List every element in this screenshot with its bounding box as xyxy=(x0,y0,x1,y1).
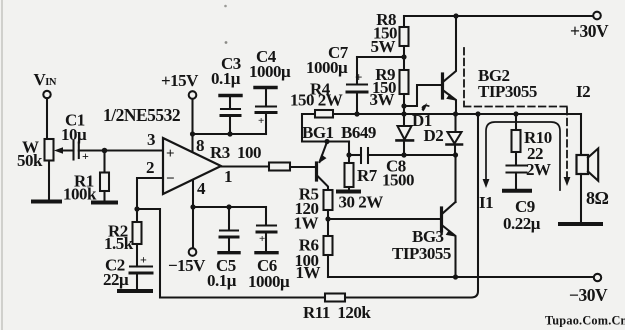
svg-text:+15V: +15V xyxy=(161,71,199,90)
svg-text:+: + xyxy=(140,253,147,267)
svg-text:8: 8 xyxy=(196,136,204,155)
ground above C4 xyxy=(255,86,276,89)
wire +15V to pin8 xyxy=(191,99,193,152)
node pin2 feedback junction xyxy=(134,206,139,211)
resistor R1 100k xyxy=(103,151,105,173)
node pin4 rail junction xyxy=(190,204,195,209)
resistor R3 100 xyxy=(221,165,269,167)
svg-text:8Ω: 8Ω xyxy=(586,188,609,208)
scan edge line left xyxy=(1,0,3,330)
svg-text:Tupao.Com.Cn: Tupao.Com.Cn xyxy=(545,314,625,328)
svg-text:1000μ: 1000μ xyxy=(248,272,290,291)
current loop I2 dashed path xyxy=(464,48,567,179)
potentiometer W 50k body xyxy=(45,139,54,161)
wire node to feedback riser xyxy=(137,208,160,210)
wire BG3 base rail xyxy=(328,218,440,220)
svg-text:1: 1 xyxy=(224,167,232,186)
svg-text:1W: 1W xyxy=(296,263,321,282)
ground under C2 xyxy=(119,289,151,293)
resistor R4 150 2W xyxy=(315,110,333,118)
svg-text:2W: 2W xyxy=(526,160,551,179)
resistor R9 150 3W xyxy=(403,57,405,70)
wire +30V rail xyxy=(404,15,594,17)
svg-text:22μ: 22μ xyxy=(103,270,129,289)
resistor R5 120 1W xyxy=(324,190,333,210)
svg-text:50k: 50k xyxy=(17,151,43,170)
svg-text:−: − xyxy=(166,171,174,187)
ground under R1 xyxy=(93,201,116,205)
current tick near BG2 base xyxy=(423,106,429,108)
node feedback rail junction xyxy=(475,111,480,116)
svg-text:3: 3 xyxy=(147,130,155,149)
svg-text:−15V: −15V xyxy=(168,256,206,275)
svg-text:4: 4 xyxy=(197,179,206,198)
transistor Q3 BG3 TIP3055 base bar xyxy=(440,208,443,231)
svg-text:5W: 5W xyxy=(371,37,396,56)
svg-text:+: + xyxy=(166,146,174,162)
svg-text:1000μ: 1000μ xyxy=(249,62,291,81)
capacitor C3 0.1u xyxy=(229,116,231,134)
wire output rail xyxy=(302,113,581,115)
node BG3 emitter junction xyxy=(453,274,458,279)
wire -15V rail to C5 C6 xyxy=(193,206,266,208)
svg-text:+30V: +30V xyxy=(570,21,609,41)
capacitor C8 1500 xyxy=(349,154,361,156)
node BG1 emitter junction xyxy=(324,139,329,144)
wire speaker to ground xyxy=(580,174,582,222)
capacitor C4 1000u xyxy=(265,113,267,134)
wire -30V rail xyxy=(328,276,594,278)
node +30V terminal xyxy=(593,12,601,20)
node R7 C8 junction xyxy=(346,152,351,157)
BG3 collector xyxy=(443,202,456,213)
svg-text:R7: R7 xyxy=(357,166,378,185)
BG1 emitter with arrow xyxy=(320,142,328,162)
current loop I1 rounded path xyxy=(486,122,560,190)
wire y155 link D1 D2 xyxy=(404,154,456,156)
wire pin2 from opamp to node xyxy=(137,178,163,209)
node -15V terminal xyxy=(189,248,197,256)
node D2 bottom junction xyxy=(453,152,458,157)
BG3 emitter with arrow xyxy=(443,226,456,277)
svg-text:+: + xyxy=(355,70,362,85)
svg-text:BG1: BG1 xyxy=(302,123,334,142)
node D2 rail junction xyxy=(453,111,458,116)
svg-text:1W: 1W xyxy=(294,214,319,233)
capacitor C2 22u plates xyxy=(130,265,152,267)
transistor Q1 BG1 B649 base bar xyxy=(315,163,318,180)
svg-text:30 2W: 30 2W xyxy=(339,193,384,212)
wire R7 branch from emitter node xyxy=(348,142,350,156)
ground under R7 xyxy=(338,190,359,194)
node C7 rail junction xyxy=(354,111,359,116)
node D1 rail junction xyxy=(401,111,406,116)
transistor Q2 BG2 TIP3055 base bar xyxy=(441,74,444,98)
resistor R2 1.5k xyxy=(136,209,138,222)
svg-text:100k: 100k xyxy=(63,185,97,204)
ground above C3 xyxy=(220,94,241,97)
svg-text:I2: I2 xyxy=(576,82,590,101)
wire feedback from output rail xyxy=(137,114,478,298)
speaker 8ohm driver xyxy=(577,155,589,174)
potentiometer wiper arrow xyxy=(60,149,74,151)
diode D1 xyxy=(403,114,405,126)
svg-text:1500: 1500 xyxy=(382,171,414,190)
resistor R7 30 2W xyxy=(348,155,350,163)
ground under C6 xyxy=(256,251,277,254)
svg-text:R3: R3 xyxy=(210,143,230,162)
scan speck 2 xyxy=(225,41,228,44)
resistor R8 150 5W xyxy=(403,16,405,27)
resistor R11 120k xyxy=(325,294,345,302)
resistor R6 100 1W xyxy=(324,236,333,255)
node R9 base junction xyxy=(401,103,406,108)
svg-text:+: + xyxy=(82,149,89,163)
svg-text:TIP3055: TIP3055 xyxy=(478,82,537,101)
node R10 rail junction xyxy=(513,111,518,116)
wire pin4 to -15V xyxy=(192,180,194,248)
svg-text:3W: 3W xyxy=(370,90,395,109)
svg-text:1/2NE5532: 1/2NE5532 xyxy=(103,105,180,125)
wire R4 left elbow to emitter node xyxy=(302,114,349,142)
ground under C5 xyxy=(219,251,239,254)
wire C1 to node xyxy=(79,149,163,151)
node D1 bottom junction xyxy=(401,152,406,157)
ground under W xyxy=(33,200,60,204)
svg-text:10μ: 10μ xyxy=(61,125,87,144)
svg-text:B649: B649 xyxy=(341,123,376,142)
capacitor C7 1000u bootstrap xyxy=(356,93,358,114)
node C3 junction xyxy=(227,131,232,136)
wire pot to ground xyxy=(48,161,50,200)
node R5 R6 junction xyxy=(325,216,330,221)
wire R9 to BG2 base xyxy=(404,85,441,106)
svg-text:R11 120k: R11 120k xyxy=(303,303,371,322)
svg-text:0.1μ: 0.1μ xyxy=(211,69,241,88)
ground under speaker xyxy=(560,222,601,226)
wire output rail to speaker xyxy=(580,114,582,155)
capacitor C6 1000u xyxy=(265,207,267,225)
svg-text:1000μ: 1000μ xyxy=(306,58,348,77)
BG2 collector xyxy=(444,16,456,81)
speaker cone xyxy=(588,149,598,181)
wire +15V rail to C3 C4 xyxy=(193,133,267,135)
node C5 junction xyxy=(226,204,231,209)
ground under C9 xyxy=(504,189,530,193)
scan speck 1 xyxy=(224,5,227,8)
BG1 collector xyxy=(318,177,328,191)
svg-text:150 2W: 150 2W xyxy=(290,91,343,110)
svg-text:+: + xyxy=(259,233,265,245)
node BG2 collector rail junction xyxy=(453,13,458,18)
svg-text:D2: D2 xyxy=(424,126,444,145)
node R8 R9 C7 junction xyxy=(401,54,406,59)
svg-text:100: 100 xyxy=(237,143,261,162)
wire VIN to potentiometer xyxy=(46,98,48,139)
node VIN terminal xyxy=(43,91,50,98)
capacitor C5 0.1u xyxy=(228,207,230,230)
resistor R10 22 2W xyxy=(515,114,517,130)
svg-text:+: + xyxy=(258,115,264,127)
svg-text:0.1μ: 0.1μ xyxy=(207,271,237,290)
BG2 emitter with arrow xyxy=(444,91,456,114)
node junction C1/R1/pin3 xyxy=(102,148,108,154)
diode D2 xyxy=(454,114,456,132)
svg-text:1.5k: 1.5k xyxy=(104,234,134,253)
svg-text:−30V: −30V xyxy=(569,285,608,305)
svg-text:0.22μ: 0.22μ xyxy=(503,214,541,233)
node +15V rail junction xyxy=(190,131,195,136)
node -30V terminal xyxy=(594,274,601,281)
wire D2 to BG3 collector xyxy=(454,155,456,202)
svg-text:I1: I1 xyxy=(479,193,493,212)
capacitor C1 plates xyxy=(72,141,74,160)
node +15V terminal xyxy=(189,91,197,99)
svg-text:2: 2 xyxy=(146,158,154,177)
op-amp U1 1/2NE5532 triangle xyxy=(163,138,221,194)
svg-text:TIP3055: TIP3055 xyxy=(392,244,451,263)
capacitor C9 0.22u xyxy=(507,164,527,166)
